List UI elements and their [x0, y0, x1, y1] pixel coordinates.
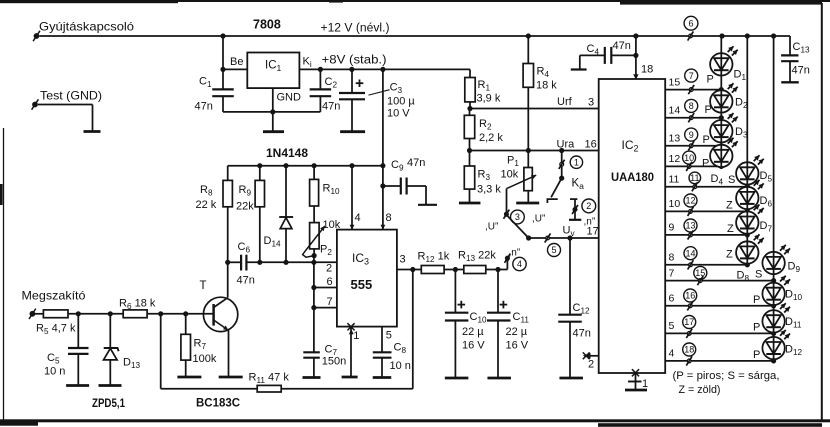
svg-text:8: 8: [669, 252, 675, 264]
svg-text:100 µ: 100 µ: [387, 96, 415, 108]
svg-text:12: 12: [669, 153, 681, 165]
svg-text:9: 9: [689, 130, 694, 140]
svg-text:Z: Z: [726, 249, 733, 261]
svg-text:UAA180: UAA180: [611, 170, 654, 184]
svg-text:18: 18: [684, 345, 694, 355]
svg-text:P: P: [702, 158, 709, 170]
svg-text:4: 4: [517, 259, 522, 269]
svg-text:10 V: 10 V: [387, 108, 410, 120]
svg-text:Z = zöld): Z = zöld): [679, 384, 721, 396]
svg-text:2,2 k: 2,2 k: [479, 132, 503, 144]
svg-text:5: 5: [386, 330, 392, 342]
svg-text:P: P: [707, 74, 714, 86]
svg-text:100k: 100k: [193, 353, 217, 365]
svg-text:R6 18 k: R6 18 k: [119, 298, 156, 312]
svg-text:Test (GND): Test (GND): [40, 89, 102, 103]
svg-text:S: S: [755, 269, 762, 281]
svg-text:R12 1k: R12 1k: [418, 251, 450, 265]
svg-text:4: 4: [669, 348, 675, 360]
svg-text:7: 7: [669, 267, 675, 279]
svg-text:10k: 10k: [501, 169, 519, 181]
svg-text:2: 2: [586, 201, 591, 211]
svg-text:8: 8: [386, 212, 392, 224]
svg-text:150n: 150n: [322, 356, 346, 368]
svg-text:3: 3: [400, 254, 406, 266]
svg-text:1: 1: [353, 330, 359, 342]
svg-text:5: 5: [551, 245, 556, 255]
svg-text:12: 12: [685, 196, 695, 206]
svg-text:BC183C: BC183C: [196, 396, 240, 410]
svg-text:22 µ: 22 µ: [506, 326, 528, 338]
svg-text:T: T: [200, 280, 207, 292]
svg-text:Urf: Urf: [557, 96, 573, 108]
svg-text:P: P: [753, 349, 760, 361]
svg-text:22 k: 22 k: [196, 199, 217, 211]
svg-text:5: 5: [669, 320, 675, 332]
svg-text:18: 18: [641, 64, 653, 76]
svg-text:S: S: [728, 174, 735, 186]
svg-text:(P = piros; S = sárga,: (P = piros; S = sárga,: [673, 370, 780, 382]
svg-text:47n: 47n: [573, 328, 591, 340]
svg-text:1: 1: [574, 157, 579, 167]
svg-text:3: 3: [515, 212, 520, 222]
svg-text:1: 1: [642, 378, 648, 390]
svg-text:22k: 22k: [236, 201, 254, 213]
svg-text:Z: Z: [726, 200, 733, 212]
svg-text:P: P: [753, 322, 760, 334]
svg-text:,n”: ,n”: [509, 248, 521, 259]
svg-text:P: P: [703, 134, 710, 146]
svg-text:2: 2: [588, 359, 594, 371]
svg-text:1N4148: 1N4148: [266, 146, 308, 160]
svg-text:555: 555: [351, 277, 373, 292]
svg-text:ZPD5,1: ZPD5,1: [92, 398, 125, 410]
svg-text:9: 9: [669, 222, 675, 234]
svg-text:13: 13: [669, 133, 681, 145]
svg-text:7: 7: [689, 71, 694, 81]
svg-text:16 V: 16 V: [506, 340, 529, 352]
svg-text:17: 17: [587, 226, 599, 238]
svg-text:3: 3: [588, 97, 594, 109]
svg-text:Ura: Ura: [557, 139, 576, 151]
svg-text:13: 13: [685, 221, 695, 231]
svg-text:R11 47 k: R11 47 k: [249, 372, 290, 386]
svg-text:47n: 47n: [237, 275, 255, 287]
svg-text:+8V (stab.): +8V (stab.): [322, 55, 387, 67]
svg-text:47n: 47n: [613, 40, 631, 52]
svg-text:22 µ: 22 µ: [462, 326, 484, 338]
svg-text:6: 6: [669, 293, 675, 305]
svg-text:2: 2: [326, 263, 332, 275]
svg-text:Z: Z: [727, 223, 734, 235]
svg-text:47n: 47n: [195, 101, 213, 113]
svg-text:3,9 k: 3,9 k: [477, 93, 501, 105]
svg-text:10 n: 10 n: [390, 360, 411, 372]
svg-text:14: 14: [685, 248, 695, 258]
svg-text:10 n: 10 n: [44, 366, 65, 378]
svg-text:8: 8: [689, 101, 694, 111]
svg-text:14: 14: [669, 104, 681, 116]
svg-text:17: 17: [684, 317, 694, 327]
svg-text:16: 16: [685, 291, 695, 301]
svg-text:Gyújtáskapcsoló: Gyújtáskapcsoló: [39, 20, 134, 34]
svg-text:Be: Be: [230, 56, 243, 68]
svg-text:GND: GND: [277, 92, 302, 104]
svg-text:,U”: ,U”: [485, 222, 498, 233]
svg-text:4: 4: [355, 212, 361, 224]
svg-text:10: 10: [669, 198, 681, 210]
svg-text:18 k: 18 k: [536, 80, 557, 92]
svg-text:Megszakító: Megszakító: [22, 289, 86, 303]
svg-text:7: 7: [327, 296, 333, 308]
svg-text:10: 10: [684, 153, 694, 163]
svg-text:11: 11: [669, 173, 680, 185]
svg-text:15: 15: [669, 76, 681, 88]
svg-text:47n: 47n: [322, 101, 340, 113]
svg-text:47n: 47n: [407, 157, 425, 169]
svg-text:16 V: 16 V: [462, 340, 485, 352]
svg-text:6: 6: [327, 276, 333, 288]
svg-text:,U”: ,U”: [532, 214, 545, 225]
svg-text:47n: 47n: [792, 65, 810, 77]
svg-text:6: 6: [688, 18, 693, 28]
svg-text:16: 16: [585, 139, 597, 151]
svg-text:R13 22k: R13 22k: [458, 250, 496, 264]
svg-text:7808: 7808: [253, 18, 281, 32]
svg-text:3,3 k: 3,3 k: [477, 184, 501, 196]
svg-text:11: 11: [690, 173, 699, 183]
svg-text:P: P: [705, 104, 712, 116]
svg-text:15: 15: [695, 268, 705, 278]
svg-text:+12 V (névl.): +12 V (névl.): [321, 23, 390, 35]
svg-text:R5 4,7 k: R5 4,7 k: [36, 323, 76, 337]
svg-text:P: P: [753, 294, 760, 306]
